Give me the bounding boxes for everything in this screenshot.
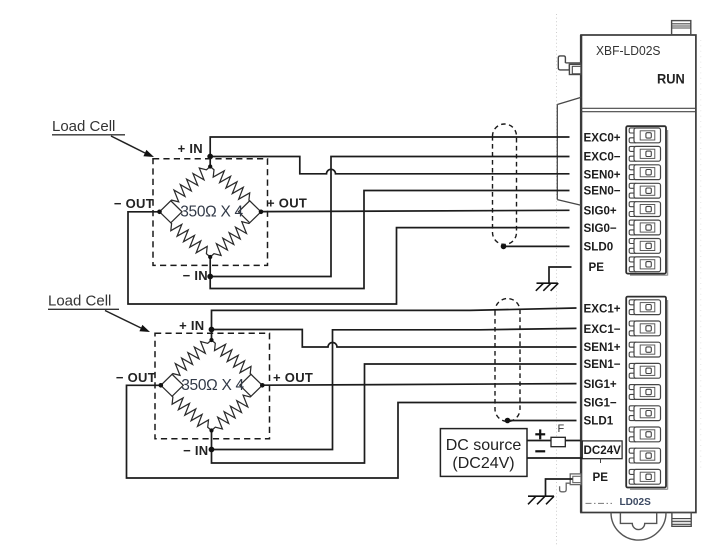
- svg-text:(DC24V): (DC24V): [452, 455, 514, 472]
- minus polarity mark: [535, 450, 545, 452]
- wire SEN0+ from +IN with jog and hop-over: [210, 157, 569, 174]
- load cell bridge resistor arm bottom-right (bridge 0): [210, 222, 250, 257]
- terminal 0.4 clamp: [629, 183, 660, 198]
- terminal 1.4 clamp: [629, 363, 660, 378]
- bridge 1 right corner diamond: [240, 374, 262, 396]
- svg-text:LD02S: LD02S: [620, 496, 651, 508]
- svg-text:+ IN: + IN: [179, 318, 204, 333]
- svg-text:EXC1+: EXC1+: [584, 303, 621, 316]
- ground symbol (block 1 PE): [528, 496, 554, 504]
- wire DC +24V through fuse: [527, 440, 581, 442]
- wire PE0 to earth: [549, 267, 572, 283]
- bridge 1 top vertex node: [209, 338, 213, 342]
- wire PE1 to earth: [546, 479, 573, 496]
- fuse F1: [551, 437, 565, 446]
- wire SIG0+ from +OUT: [261, 210, 570, 211]
- svg-text:EXC0−: EXC0−: [584, 151, 621, 164]
- DC source box: [440, 429, 527, 477]
- wire EXC1+ from load cell 1 +IN: [212, 308, 577, 340]
- wire EXC1- from load cell 1 -IN: [212, 328, 577, 449]
- svg-text:PE: PE: [593, 471, 609, 484]
- load cell bridge resistor arm bottom-left (bridge 0): [171, 223, 210, 257]
- module bottom semicircle boss: [611, 513, 666, 541]
- terminal 0.6 clamp: [629, 220, 660, 235]
- module bottom connector tab: [672, 513, 691, 527]
- svg-text:SEN1+: SEN1+: [584, 341, 621, 354]
- bridge 1 left corner diamond: [161, 374, 184, 396]
- wire SEN1+ from +IN with jog and hop-over: [212, 330, 577, 348]
- svg-text:XBF-LD02S: XBF-LD02S: [596, 43, 661, 58]
- terminal 1.7 clamp: [629, 427, 660, 442]
- dash-dot mark left of LD02S: [586, 502, 613, 504]
- svg-text:− OUT: − OUT: [116, 370, 156, 385]
- svg-text:Load Cell: Load Cell: [52, 118, 115, 135]
- load cell bridge resistor arm bottom-left (bridge 1): [172, 396, 211, 430]
- wire SIG1+ from +OUT: [262, 384, 577, 386]
- svg-text:+ OUT: + OUT: [273, 370, 313, 385]
- module top connector tab: [672, 21, 691, 35]
- load cell bridge resistor arm top-right (bridge 1): [212, 340, 252, 374]
- wire SLD0 shield drain: [504, 245, 570, 247]
- module DIN clip top-left: [558, 56, 581, 75]
- bridge 0 right corner diamond: [239, 201, 262, 223]
- ground symbol (block 0 PE): [536, 283, 559, 291]
- svg-text:SIG1−: SIG1−: [584, 397, 617, 410]
- svg-text:F: F: [558, 423, 565, 435]
- terminal block 0 shadow: [630, 130, 668, 276]
- svg-text:EXC0+: EXC0+: [584, 132, 621, 145]
- wire SIG1- from -OUT loop: [127, 385, 577, 478]
- node +IN junction (load cell 1): [209, 327, 215, 333]
- terminal block 1 shadow: [630, 300, 668, 490]
- svg-text:Load Cell: Load Cell: [48, 293, 111, 310]
- terminal 0.3 clamp: [629, 165, 660, 180]
- load cell 0 dashed enclosure: [153, 159, 268, 266]
- bridge 0 left vertex node: [157, 210, 162, 215]
- svg-text:EXC1−: EXC1−: [584, 323, 621, 336]
- svg-text:SIG0−: SIG0−: [584, 222, 617, 235]
- terminal cover flap (open): [557, 97, 581, 205]
- svg-text:DC24V: DC24V: [584, 444, 622, 457]
- node -IN junction (load cell 1): [209, 447, 215, 453]
- svg-text:+ IN: + IN: [178, 141, 203, 156]
- svg-text:RUN: RUN: [657, 71, 685, 87]
- wire SEN0- from -IN via lower jog: [210, 191, 569, 289]
- terminal 0.2 clamp: [629, 146, 660, 161]
- terminal 1.5 clamp: [629, 385, 660, 400]
- terminal 1.8 clamp: [629, 448, 660, 463]
- label DC24V boxed: [582, 441, 622, 463]
- svg-text:SEN1−: SEN1−: [584, 358, 621, 371]
- bridge 1 right vertex node: [260, 383, 265, 388]
- svg-text:− OUT: − OUT: [114, 196, 154, 211]
- module bottom connector notch: [620, 513, 656, 530]
- svg-text:DC source: DC source: [446, 437, 522, 454]
- wire SLD1 shield drain: [508, 420, 577, 422]
- load cell bridge resistor arm top-left (bridge 1): [172, 340, 211, 375]
- module header divider double line: [581, 108, 696, 111]
- wire DC 0V return: [527, 457, 582, 459]
- load cell bridge resistor arm top-left (bridge 0): [171, 167, 210, 202]
- terminal 0.5 clamp: [629, 202, 660, 217]
- terminal 1.3 clamp: [629, 342, 660, 357]
- svg-text:SEN0−: SEN0−: [584, 185, 621, 198]
- module left edge emphasis: [580, 35, 582, 513]
- faint page guide dotted line right: [700, 40, 702, 468]
- terminal 0.1 clamp: [629, 128, 660, 143]
- svg-text:− IN: − IN: [183, 443, 208, 458]
- svg-text:SEN0+: SEN0+: [584, 169, 621, 182]
- terminal 0.7 clamp: [629, 239, 660, 254]
- terminal 0.8 clamp: [629, 257, 660, 272]
- svg-text:350Ω X 4: 350Ω X 4: [181, 377, 244, 394]
- svg-text:− IN: − IN: [183, 268, 208, 283]
- terminal 1.6 clamp: [629, 406, 660, 421]
- load cell bridge resistor arm top-right (bridge 0): [210, 167, 250, 201]
- node -IN junction (load cell 0): [207, 274, 213, 280]
- terminal block 1 frame: [626, 297, 666, 488]
- bridge 1 bottom vertex node: [209, 428, 213, 432]
- svg-text:SIG0+: SIG0+: [584, 204, 617, 217]
- wire SEN1- from -IN via lower jog: [212, 364, 577, 463]
- faint page guide dotted line left: [556, 14, 558, 545]
- wire SIG0- from -OUT loop: [128, 212, 570, 304]
- bridge 0 bottom vertex node: [208, 255, 212, 259]
- bridge 0 right vertex node: [259, 210, 264, 215]
- cable shield ellipse (channel 1): [495, 299, 520, 422]
- svg-text:SIG1+: SIG1+: [584, 378, 617, 391]
- bridge 1 left vertex node: [159, 383, 164, 388]
- wire EXC0+ from load cell 0 +IN: [210, 137, 569, 167]
- svg-text:350Ω X 4: 350Ω X 4: [180, 204, 243, 221]
- wire EXC0- from load cell 0 -IN: [210, 157, 569, 277]
- svg-text:SLD1: SLD1: [584, 415, 614, 428]
- Load Cell callout 0: [52, 118, 154, 157]
- svg-text:+ OUT: + OUT: [267, 196, 307, 211]
- terminal 1.1 clamp: [629, 300, 660, 315]
- plus polarity mark: [535, 429, 545, 439]
- terminal 1.9 clamp: [629, 469, 660, 484]
- PE plug lug (block 1): [560, 474, 581, 492]
- bridge 0 left corner diamond: [160, 201, 183, 223]
- node +IN junction (load cell 0): [207, 154, 213, 160]
- svg-text:SLD0: SLD0: [584, 241, 614, 254]
- module XBF-LD02S body outline: [581, 35, 696, 513]
- svg-text:PE: PE: [589, 261, 605, 274]
- node SLD1 shield junction: [505, 418, 511, 424]
- load cell bridge resistor arm bottom-right (bridge 1): [212, 395, 252, 430]
- bridge 0 top vertex node: [208, 164, 212, 168]
- Load Cell callout 1: [48, 293, 150, 333]
- cable shield ellipse (channel 0): [493, 124, 517, 244]
- load cell 1 dashed enclosure: [155, 333, 270, 439]
- terminal block 0 frame: [626, 126, 666, 273]
- terminal 1.2 clamp: [629, 321, 660, 336]
- node SLD0 shield junction: [501, 244, 507, 250]
